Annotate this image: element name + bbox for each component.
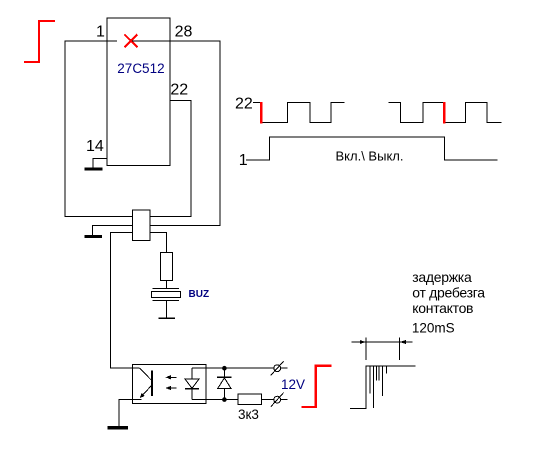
wire label22 lead: [253, 101, 260, 103]
svg-text:120mS: 120mS: [412, 321, 455, 336]
wire pin 14: [93, 158, 107, 167]
wire pin 28 to right bus: [132, 41, 220, 226]
bounce waveform trace: [350, 366, 415, 408]
LED D1 cathode wire: [191, 389, 193, 400]
bounce spike 1: [369, 366, 371, 393]
waveform pin1 pulse trace: [246, 137, 498, 160]
red falling edge waveform B: [443, 102, 445, 123]
bounce spike 2: [373, 366, 375, 408]
bounce spike 3: [375, 366, 377, 380]
svg-text:от дребезга: от дребезга: [412, 285, 485, 301]
dimension arrow left-pointing: [400, 340, 406, 344]
terminal X1 stub: [281, 367, 288, 369]
svg-text:27C512: 27C512: [117, 61, 164, 76]
wire R2 to terminal: [262, 399, 274, 401]
waveform B clock trace right: [446, 103, 502, 123]
junction node top: [222, 366, 227, 371]
diode D2 triangle: [218, 378, 231, 388]
LED D1 anode wire: [191, 368, 193, 379]
LED D1 cathode bar: [185, 388, 199, 390]
svg-text:12V: 12V: [281, 377, 305, 392]
terminal X2 circle: [274, 396, 281, 403]
wire buffer to resistor R1: [150, 233, 166, 253]
wire emitter out: [119, 400, 142, 426]
resistor R2 3k3 body: [238, 394, 262, 404]
terminal X1 circle: [274, 365, 281, 372]
ground line buzzer: [158, 317, 175, 319]
bounce spike 5: [382, 366, 384, 396]
bounce spike 4: [378, 366, 380, 380]
phototransistor Q1 collector: [140, 368, 152, 381]
bounce spike 6: [385, 366, 387, 373]
diode D2 cathode bar: [217, 376, 231, 378]
svg-text:задержка: задержка: [412, 269, 472, 285]
buzzer BZ1 body: [152, 292, 181, 298]
svg-text:контактов: контактов: [412, 300, 473, 316]
dimension extension line right: [399, 338, 401, 361]
svg-text:3к3: 3к3: [238, 407, 259, 422]
wire R1 to buzzer: [165, 281, 167, 289]
wire buzzer to ground: [165, 301, 167, 319]
svg-text:Вкл.\ Выкл.: Вкл.\ Выкл.: [336, 149, 404, 164]
svg-text:BUZ: BUZ: [189, 289, 210, 300]
waveform A clock trace: [263, 103, 345, 123]
ground bar buffer: [85, 235, 103, 238]
diode D2 anode wire: [223, 388, 225, 399]
resistor R1 body: [160, 253, 172, 281]
light arrow lower: [168, 387, 177, 389]
svg-text:14: 14: [86, 138, 104, 155]
dimension arrow right-pointing: [360, 340, 366, 344]
wire top rail LED to terminal: [192, 367, 274, 369]
wire buffer pin to ground: [93, 226, 133, 236]
phototransistor Q1 emitter arrow: [140, 393, 145, 398]
wire buffer to optocoupler (long left drop): [111, 233, 140, 369]
optocoupler U3 body: [133, 365, 206, 404]
LED D1 triangle: [185, 379, 199, 388]
dimension line: [352, 341, 413, 343]
buzzer BZ1 top plate: [153, 288, 180, 290]
wire pin 22: [150, 101, 191, 217]
phototransistor Q1 base bar: [151, 371, 153, 396]
dimension extension line left: [365, 338, 367, 361]
svg-text:22: 22: [235, 95, 253, 112]
red edge-pulse marker bottom-right: [301, 366, 331, 407]
junction node bottom: [222, 397, 227, 402]
wire pin 1 segment: [65, 41, 133, 217]
svg-text:1: 1: [96, 24, 105, 41]
red falling edge waveform A: [260, 102, 262, 123]
red edge-pulse marker top-left: [24, 21, 55, 62]
phototransistor Q1 emitter: [140, 385, 152, 398]
light arrow upper: [168, 376, 177, 378]
wire bottom rail LED to resistor: [192, 399, 238, 401]
svg-text:28: 28: [175, 24, 193, 41]
red X cut mark on pin1 wire: [124, 34, 137, 47]
waveform B clock trace left: [388, 103, 443, 123]
ground bar pin14: [84, 167, 102, 170]
ground bar optocoupler: [108, 426, 129, 430]
svg-text:22: 22: [170, 82, 188, 99]
EPROM U1 27C512 body: [107, 18, 170, 166]
buzzer BZ1 bottom plate: [153, 300, 180, 302]
terminal X1 slash: [271, 361, 284, 375]
buffer box U2: [133, 210, 151, 241]
terminal X2 stub: [281, 399, 288, 401]
terminal X2 slash: [271, 393, 284, 407]
diode D2 cathode wire: [223, 368, 225, 377]
